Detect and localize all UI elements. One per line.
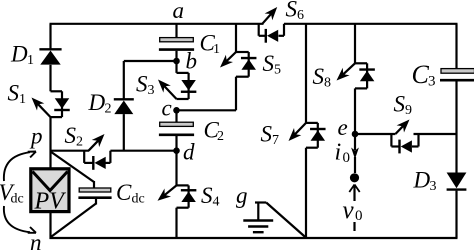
svg-text:S: S bbox=[261, 122, 273, 147]
svg-text:p: p bbox=[29, 124, 43, 149]
wire top rail to S7 bbox=[305, 24, 307, 123]
wire node b to D2 column bbox=[124, 61, 177, 99]
voltage label v0 bbox=[343, 197, 363, 224]
svg-text:S: S bbox=[313, 64, 325, 89]
value label Cdc bbox=[116, 180, 145, 207]
svg-text:c: c bbox=[162, 96, 172, 121]
wire v0 dashed reference bbox=[353, 222, 355, 231]
node label g bbox=[236, 183, 248, 208]
ref label D2 bbox=[88, 90, 112, 117]
PV source box bbox=[31, 169, 69, 215]
node a stub to C1 bbox=[175, 24, 177, 38]
ref label S7 bbox=[261, 122, 280, 149]
svg-text:5: 5 bbox=[274, 63, 281, 78]
wire top rail right segment bbox=[284, 23, 458, 25]
svg-text:C: C bbox=[116, 180, 132, 205]
switch S9 bbox=[391, 120, 418, 154]
diode D2 bbox=[114, 99, 134, 114]
ref label S3 bbox=[136, 72, 155, 99]
svg-text:S: S bbox=[394, 92, 406, 117]
wire node e to S9 bbox=[355, 133, 395, 135]
svg-text:7: 7 bbox=[272, 133, 279, 148]
diode D3 bbox=[447, 173, 467, 190]
wire C1 to node b bbox=[175, 51, 177, 61]
node d junction dot bbox=[173, 147, 180, 154]
node e junction dot bbox=[352, 131, 359, 138]
switch S7 bbox=[289, 123, 326, 148]
wire n diagonal to Cdc bbox=[51, 199, 97, 238]
node b junction dot bbox=[173, 58, 180, 65]
ground symbol g bbox=[243, 203, 273, 233]
svg-text:S: S bbox=[263, 51, 275, 76]
svg-text:3: 3 bbox=[430, 179, 437, 194]
svg-text:2: 2 bbox=[76, 135, 83, 150]
svg-text:a: a bbox=[173, 0, 185, 23]
svg-text:b: b bbox=[186, 49, 198, 74]
svg-text:S: S bbox=[286, 0, 298, 22]
wire ground diagonal to bottom rail bbox=[266, 203, 306, 238]
wire S7 to bottom rail bbox=[305, 148, 307, 238]
ref label S1 bbox=[8, 81, 27, 108]
node c junction dot bbox=[173, 107, 180, 114]
voltage arrow v0 (open head) bbox=[349, 185, 359, 202]
wire D2 to S2 rail bbox=[123, 114, 125, 151]
node label n bbox=[30, 230, 42, 252]
diode D1 bbox=[39, 49, 61, 64]
svg-text:d: d bbox=[183, 140, 195, 165]
switch S4 bbox=[158, 151, 197, 238]
svg-text:S: S bbox=[8, 81, 20, 106]
wire C2 to node d bbox=[175, 136, 177, 151]
current arrow i0 bbox=[351, 134, 359, 173]
svg-text:e: e bbox=[338, 115, 348, 140]
node label c bbox=[162, 96, 172, 121]
ref label S4 bbox=[201, 183, 220, 210]
node label d bbox=[183, 140, 195, 165]
ref label D1 bbox=[10, 42, 34, 69]
svg-text:D: D bbox=[10, 42, 28, 67]
switch S2 bbox=[84, 134, 110, 170]
svg-text:2: 2 bbox=[105, 102, 112, 117]
svg-text:9: 9 bbox=[405, 103, 412, 118]
svg-text:C: C bbox=[412, 60, 430, 89]
ref label S8 bbox=[313, 64, 332, 91]
value label Vdc bbox=[0, 180, 24, 207]
svg-text:2: 2 bbox=[217, 129, 224, 144]
svg-text:D: D bbox=[413, 168, 431, 193]
svg-text:S: S bbox=[136, 72, 148, 97]
svg-text:4: 4 bbox=[213, 195, 220, 210]
svg-text:0: 0 bbox=[355, 208, 363, 224]
svg-text:1: 1 bbox=[19, 92, 26, 107]
capacitor C2 bbox=[159, 122, 194, 135]
svg-text:D: D bbox=[88, 90, 106, 115]
arrow Vdc to p (curved) bbox=[4, 152, 36, 182]
capacitor C3 bbox=[440, 69, 474, 81]
wire c to C2 bbox=[175, 110, 177, 122]
wire top rail left segment (node a rail) bbox=[50, 23, 264, 25]
node label b bbox=[186, 49, 198, 74]
svg-text:v: v bbox=[343, 197, 355, 224]
ref label D3 bbox=[413, 168, 437, 195]
svg-text:0: 0 bbox=[343, 150, 351, 166]
svg-text:1: 1 bbox=[27, 53, 34, 68]
current label i0 bbox=[335, 140, 351, 167]
ref label S6 bbox=[286, 0, 305, 23]
wire S8 to node e bbox=[354, 88, 356, 134]
switch S6 bbox=[259, 7, 284, 43]
value label C1 bbox=[200, 31, 221, 58]
wire p diagonal to Cdc bbox=[51, 152, 95, 189]
wire S2 rail left bbox=[51, 150, 90, 152]
svg-text:3: 3 bbox=[428, 74, 436, 90]
capacitor C1 bbox=[159, 38, 194, 50]
svg-text:8: 8 bbox=[324, 76, 331, 91]
value label C2 bbox=[204, 118, 225, 145]
value label C3 bbox=[412, 60, 436, 90]
wire left vertical (p branch) bbox=[49, 24, 51, 239]
switch S8 bbox=[337, 63, 375, 88]
wire S9 to right wire bbox=[414, 133, 457, 135]
wire S2 rail right bbox=[110, 150, 176, 152]
svg-text:3: 3 bbox=[148, 83, 155, 98]
svg-text:S: S bbox=[201, 183, 213, 208]
capacitor Cdc bbox=[78, 188, 111, 198]
svg-text:i: i bbox=[335, 140, 342, 166]
switch S5 bbox=[220, 24, 256, 77]
svg-text:S: S bbox=[65, 123, 77, 148]
node label e bbox=[338, 115, 348, 140]
wire right vertical bbox=[455, 24, 457, 238]
wire top rail to S8 bbox=[354, 24, 356, 64]
ref label S2 bbox=[65, 123, 84, 150]
arrow Vdc to n (curved) bbox=[4, 206, 36, 233]
wire node c to S5 bottom bbox=[177, 77, 237, 111]
svg-text:PV: PV bbox=[34, 189, 67, 215]
node label a bbox=[173, 0, 185, 23]
svg-text:g: g bbox=[236, 183, 248, 208]
svg-text:1: 1 bbox=[213, 42, 220, 57]
ref label S9 bbox=[394, 92, 413, 119]
svg-text:dc: dc bbox=[132, 192, 145, 207]
svg-text:dc: dc bbox=[11, 192, 24, 207]
svg-text:6: 6 bbox=[297, 8, 304, 23]
node label p bbox=[29, 124, 43, 149]
ref label S5 bbox=[263, 51, 282, 78]
node output terminal (big dot) bbox=[350, 173, 359, 182]
switch S3 bbox=[158, 61, 196, 99]
wire bottom rail bbox=[50, 237, 458, 239]
switch S1 bbox=[32, 91, 70, 117]
